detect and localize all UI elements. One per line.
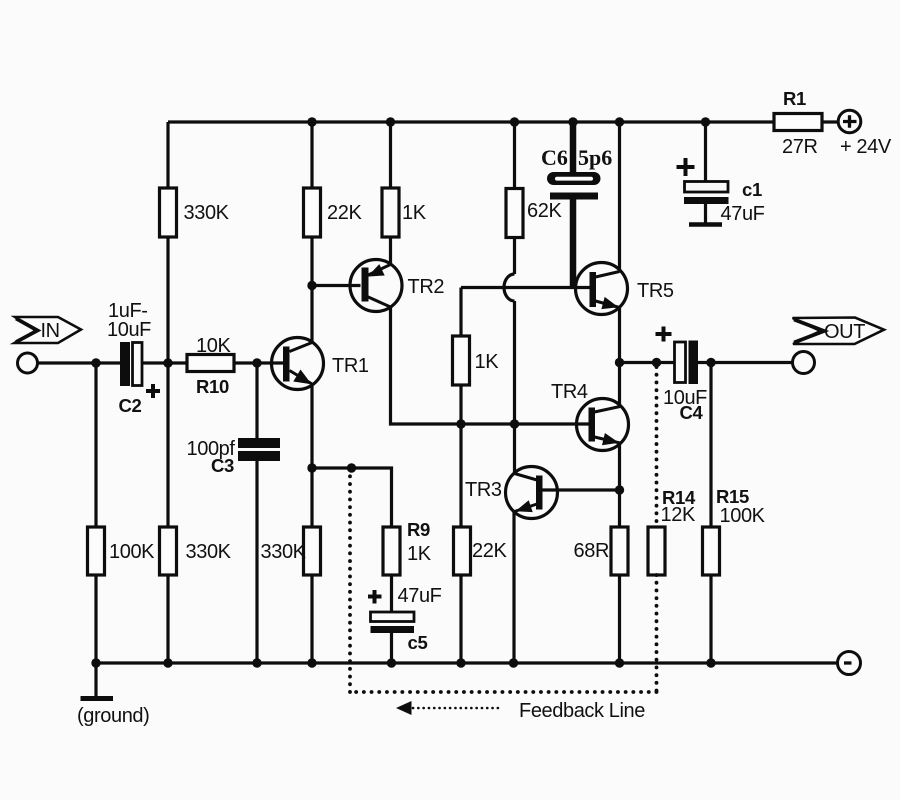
svg-text:IN: IN — [41, 320, 60, 342]
svg-text:330K: 330K — [184, 202, 230, 224]
svg-text:1K: 1K — [402, 202, 427, 224]
svg-text:100K: 100K — [720, 505, 766, 527]
svg-text:TR2: TR2 — [408, 276, 445, 298]
svg-text:R9: R9 — [407, 519, 430, 540]
svg-text:27R: 27R — [782, 136, 818, 158]
svg-text:1K: 1K — [475, 351, 500, 373]
svg-text:68R: 68R — [574, 540, 610, 562]
svg-text:R1: R1 — [783, 88, 806, 109]
svg-text:C3: C3 — [211, 455, 234, 476]
svg-text:62K: 62K — [527, 200, 562, 222]
svg-text:TR5: TR5 — [637, 280, 674, 302]
svg-text:100K: 100K — [109, 541, 155, 563]
svg-text:C6: C6 — [541, 145, 568, 170]
svg-text:22K: 22K — [472, 540, 507, 562]
svg-text:1K: 1K — [407, 543, 432, 565]
svg-text:C2: C2 — [119, 395, 142, 416]
svg-text:330K: 330K — [186, 541, 232, 563]
svg-text:c5: c5 — [408, 632, 428, 653]
svg-text:330K: 330K — [261, 541, 307, 563]
svg-text:22K: 22K — [327, 202, 362, 224]
svg-text:TR4: TR4 — [551, 381, 588, 403]
svg-text:C4: C4 — [680, 402, 704, 423]
svg-text:R10: R10 — [196, 376, 229, 397]
svg-text:12K: 12K — [661, 504, 696, 526]
svg-text:+ 24V: + 24V — [840, 136, 892, 158]
svg-text:R15: R15 — [716, 486, 749, 507]
svg-text:TR1: TR1 — [332, 355, 369, 377]
svg-text:10K: 10K — [196, 335, 231, 357]
svg-text:c1: c1 — [742, 179, 762, 200]
svg-text:5p6: 5p6 — [578, 145, 612, 170]
svg-text:47uF: 47uF — [398, 585, 442, 607]
svg-text:TR3: TR3 — [465, 479, 502, 501]
svg-text:10uF: 10uF — [107, 319, 151, 341]
svg-text:OUT: OUT — [824, 321, 865, 343]
svg-text:47uF: 47uF — [721, 203, 765, 225]
svg-text:(ground): (ground) — [77, 705, 149, 727]
svg-text:Feedback Line: Feedback Line — [519, 700, 645, 722]
